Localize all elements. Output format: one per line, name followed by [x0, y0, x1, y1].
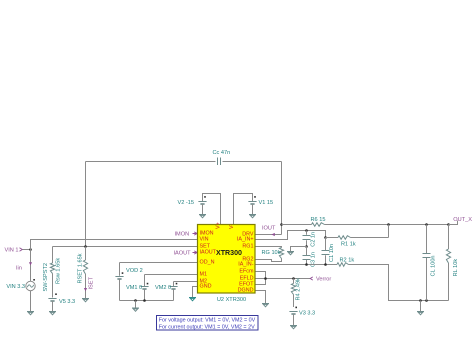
node: CL top — [425, 223, 428, 226]
node: R4 top — [292, 277, 295, 280]
wire: Cc top wire right segment — [223, 161, 282, 163]
svg-text:SW-SPST2: SW-SPST2 — [43, 263, 49, 292]
svg-text:C2 1n: C2 1n — [311, 232, 317, 247]
node: SET/RSET/Cc junction — [84, 245, 87, 248]
wire: OD_N row — [120, 262, 198, 264]
battery V2 -15 — [178, 196, 207, 214]
svg-text:R1 1k: R1 1k — [341, 241, 356, 247]
wire: vertical Cc-right down to IOUT node and DRV pin — [255, 162, 282, 235]
svg-text:RSET 1.65k: RSET 1.65k — [78, 253, 84, 283]
battery V1 15 — [248, 196, 273, 214]
battery V3 3.3 — [289, 307, 315, 325]
svg-text:RG 10k: RG 10k — [262, 250, 281, 256]
resistor R4 2.49k — [291, 278, 301, 307]
ground (V2) — [199, 215, 206, 218]
note box: output mode settings — [157, 316, 259, 331]
wire: V- supply L-wire — [203, 194, 221, 225]
svg-text:XTR300: XTR300 — [216, 249, 242, 257]
capacitor C3 1n — [303, 247, 317, 268]
battery V5 3.3 — [48, 293, 75, 311]
resistor R2 1k — [337, 257, 354, 266]
svg-text:IMON: IMON — [175, 231, 190, 237]
svg-text:RG1: RG1 — [242, 244, 253, 250]
battery VM1 0 — [126, 275, 149, 301]
svg-text:IA_IN-: IA_IN- — [238, 262, 253, 268]
wire: output row DRV node to OUT_X — [282, 224, 449, 226]
svg-text:C1 10n: C1 10n — [329, 244, 335, 262]
svg-text:ISET: ISET — [89, 276, 95, 289]
wire: VIN source column — [30, 250, 32, 282]
ground (VIN source) — [27, 312, 34, 315]
wire: EFcm/EFOT bracket — [255, 272, 266, 285]
resistor RL 10k — [446, 225, 459, 301]
node: junction Cc/output row — [280, 223, 283, 226]
svg-text:V+: V+ — [216, 222, 222, 229]
ground (V1) — [249, 215, 256, 218]
resistor RSET 1.65k — [78, 247, 88, 299]
label IMON net arrow — [175, 231, 198, 237]
svg-text:For voltage output: VM1 = 0V,: For voltage output: VM1 = 0V, VM2 = 0V — [159, 318, 256, 324]
ground (DGND) — [262, 304, 269, 307]
node: C1 bottom — [324, 263, 327, 266]
wire: M2 row — [174, 281, 198, 283]
node: CL bottom — [425, 299, 428, 302]
svg-text:R6 15: R6 15 — [311, 217, 326, 223]
resistor R1 1k — [338, 236, 356, 248]
svg-text:OD_N: OD_N — [200, 260, 215, 266]
svg-text:U2 XTR300: U2 XTR300 — [217, 297, 246, 303]
svg-text:CL 100n: CL 100n — [431, 255, 437, 276]
ground (mode rail) — [132, 301, 139, 312]
node: VIN port junction — [29, 248, 32, 251]
ground (V5) — [49, 312, 56, 315]
wire: DGND to ground — [255, 291, 266, 304]
wire: M1 row — [145, 274, 198, 276]
label ISET current arrow — [84, 276, 95, 291]
node: C3 bottom — [305, 263, 308, 266]
svg-text:R2 1k: R2 1k — [340, 257, 355, 263]
svg-text:Cc 47n: Cc 47n — [213, 150, 231, 156]
port Verror — [310, 277, 331, 283]
node: R1 left / C1 top — [324, 236, 327, 239]
wire: vertical Cc-left to SET node — [85, 162, 87, 247]
node: rail ground tap — [134, 299, 137, 302]
svg-text:V-: V- — [229, 224, 235, 229]
ground (C2/C3 mid) — [287, 252, 294, 255]
svg-text:DGND: DGND — [238, 288, 254, 294]
capacitor CL 100n — [423, 225, 437, 301]
ground (GND pin, teal) — [189, 298, 196, 301]
svg-text:For current output: VM1 = 0V,: For current output: VM1 = 0V, VM2 = 2V — [159, 324, 255, 330]
svg-text:V5 3.3: V5 3.3 — [59, 299, 75, 305]
svg-text:VIN 1: VIN 1 — [5, 247, 19, 253]
svg-text:VOD 2: VOD 2 — [126, 268, 143, 274]
node: EF bracket join — [264, 277, 267, 280]
svg-text:V1 15: V1 15 — [259, 200, 274, 206]
svg-text:VM2 0: VM2 0 — [155, 285, 171, 291]
wire: mode bottom rail — [120, 300, 174, 302]
label IOUT current arrow — [262, 226, 276, 237]
switch SW-SPST2 + resistor Rsw 1.65k — [43, 247, 62, 298]
svg-text:EFcm: EFcm — [239, 269, 254, 275]
wire: ground stub from C2/C3 mid — [291, 247, 307, 252]
wire: EFLD row to Verror — [255, 278, 310, 280]
svg-text:M1: M1 — [200, 272, 208, 278]
ground (bottom rail) — [417, 301, 424, 315]
svg-text:OUT_X: OUT_X — [453, 217, 472, 223]
port VIN 1 — [5, 247, 31, 253]
capacitor C2 1n — [303, 231, 317, 247]
source VIN 3.3 sine — [6, 279, 35, 311]
wire: IA_IN+ sense path — [255, 231, 326, 240]
wire: SET row — [53, 246, 198, 248]
svg-text:Rsw 1.65k: Rsw 1.65k — [56, 258, 62, 284]
svg-text:VIN: VIN — [200, 237, 209, 243]
svg-text:Iin: Iin — [16, 266, 22, 272]
svg-text:R4 2.49k: R4 2.49k — [296, 278, 302, 301]
capacitor C1 10n — [322, 238, 336, 265]
svg-text:IAOUT: IAOUT — [174, 250, 192, 256]
svg-text:IOUT: IOUT — [262, 226, 276, 232]
IC U2 XTR300 — [198, 222, 256, 293]
svg-text:VM1 0: VM1 0 — [126, 285, 142, 291]
wire: R1 row — [326, 237, 389, 239]
node: R6/R1 join — [387, 223, 390, 226]
wire: VIN row to chip — [31, 240, 198, 250]
svg-text:IAOUT: IAOUT — [200, 250, 217, 256]
battery VOD 2 — [115, 263, 142, 301]
port OUT_X — [449, 217, 473, 224]
node: RL top — [447, 223, 450, 226]
node: C2/C3 midpoint — [305, 245, 308, 248]
svg-text:Verror: Verror — [316, 277, 331, 283]
wire: vertical R6 row to R1 row — [388, 225, 390, 238]
node: VM1 bottom — [143, 299, 146, 302]
resistor RG 10k on RG1/RG2 pins — [255, 247, 284, 262]
wire: V+ supply L-wire — [234, 194, 253, 225]
capacitor Cc 47n — [213, 150, 231, 165]
label IAOUT net arrow — [174, 250, 198, 256]
svg-text:GND: GND — [200, 284, 212, 290]
battery VM2 0 — [155, 282, 178, 301]
wire: GND pin to ground — [193, 287, 198, 298]
label Iin current arrow — [16, 262, 32, 271]
wire: Cc top wire left segment — [86, 161, 216, 163]
svg-text:V3 3.3: V3 3.3 — [299, 311, 315, 317]
ground (V3) — [290, 326, 297, 329]
svg-text:VIN 3.3: VIN 3.3 — [6, 284, 25, 290]
svg-text:V2 -15: V2 -15 — [178, 200, 194, 206]
svg-text:RL 10k: RL 10k — [453, 259, 459, 277]
wire: IA_IN- row and down to bottom rail — [255, 265, 449, 301]
resistor R6 15 — [311, 217, 326, 226]
node: C2 top — [305, 229, 308, 232]
svg-text:IA_IN+: IA_IN+ — [237, 237, 254, 243]
node: bottom rail ground tap — [419, 299, 422, 302]
ground (RSET) — [82, 299, 89, 302]
